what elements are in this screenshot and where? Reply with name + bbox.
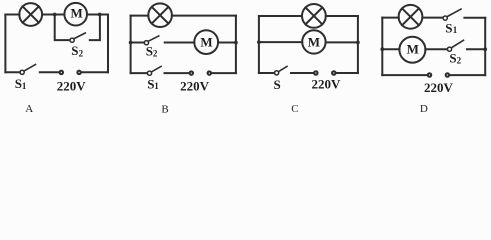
svg-text:M: M xyxy=(70,6,82,21)
svg-text:M: M xyxy=(200,35,212,50)
label S2 (circuit B) xyxy=(146,43,158,58)
label S1 (circuit B) xyxy=(147,77,159,92)
wire D terminal to bottom right corner xyxy=(450,74,485,76)
lamp L (circuit A) xyxy=(19,3,42,26)
wire A motor to node xyxy=(87,14,100,16)
wire C motor to right vertical xyxy=(326,41,358,43)
svg-text:2: 2 xyxy=(79,49,84,59)
terminal T1 of 220V source (circuit C) xyxy=(314,71,317,74)
wire A bottom left segment xyxy=(5,71,19,73)
wire C right vertical xyxy=(357,16,359,73)
svg-text:220V: 220V xyxy=(424,80,454,95)
svg-text:M: M xyxy=(407,41,419,56)
node A1 (junction left of motor) xyxy=(53,13,57,17)
wire C top segment left xyxy=(259,15,302,17)
switch S2 (circuit A) xyxy=(70,33,85,42)
lamp L (circuit D) xyxy=(399,5,423,29)
wire C bottom left segment xyxy=(259,72,274,74)
terminal T2 of 220V source (circuit A) xyxy=(77,71,80,74)
wire B top left segment xyxy=(131,15,149,17)
wire C lamp to top right corner xyxy=(326,15,358,17)
node D1 (junction middle left) xyxy=(380,47,384,51)
switch S1 (circuit D) xyxy=(443,9,461,20)
terminal T1 of 220V source (circuit D) xyxy=(428,73,431,76)
svg-text:220V: 220V xyxy=(57,79,87,94)
switch S (circuit C) xyxy=(275,66,288,75)
motor M (circuit D) xyxy=(399,37,425,63)
wire B switch to terminal xyxy=(165,72,189,74)
wire D switch to right vertical xyxy=(467,48,485,50)
svg-text:C: C xyxy=(291,103,298,115)
motor M (circuit B) xyxy=(194,30,218,54)
svg-text:B: B xyxy=(161,104,168,116)
wire A switch to terminal xyxy=(40,71,59,73)
label S2 (circuit D) xyxy=(449,50,461,65)
wire C switch to terminal xyxy=(291,72,313,74)
wire D left vertical xyxy=(381,18,383,76)
node B1 (junction middle left) xyxy=(129,41,133,45)
node C1 (junction middle left) xyxy=(257,40,261,44)
wire D switch to top right corner xyxy=(464,17,485,19)
label S1 (circuit D) xyxy=(445,20,458,35)
wire B left vertical xyxy=(130,16,132,74)
wire D lamp to switch xyxy=(422,17,443,19)
wire B bottom left segment xyxy=(131,72,148,74)
svg-text:220V: 220V xyxy=(180,78,210,93)
wire A S2 to right branch xyxy=(90,15,100,41)
wire C left vertical xyxy=(258,16,260,73)
svg-text:S: S xyxy=(146,43,153,58)
wire A node to top right corner xyxy=(100,14,108,16)
wire A left vertical xyxy=(4,15,6,73)
svg-text:1: 1 xyxy=(22,81,27,91)
motor M (circuit C) xyxy=(302,30,325,53)
svg-text:S: S xyxy=(449,50,456,65)
svg-text:D: D xyxy=(420,103,428,115)
wire C terminal to bottom right corner xyxy=(336,72,358,74)
wire B motor to right vertical xyxy=(218,42,236,44)
label S2 (circuit A) xyxy=(71,43,83,59)
svg-text:2: 2 xyxy=(457,56,462,66)
wire D motor to switch xyxy=(425,48,447,50)
wire C middle left segment xyxy=(259,41,302,43)
wire D right vertical xyxy=(484,18,486,75)
wire A node to motor xyxy=(55,14,65,16)
wire A top left segment xyxy=(5,14,19,16)
svg-text:1: 1 xyxy=(154,81,159,91)
svg-text:1: 1 xyxy=(453,25,458,35)
wire A lamp to node xyxy=(42,14,55,16)
terminal T2 of 220V source (circuit D) xyxy=(446,73,449,76)
wire D top left segment xyxy=(382,17,398,19)
node D2 (junction middle right) xyxy=(483,47,487,51)
node B2 (junction middle right) xyxy=(234,41,238,45)
wire D bottom left segment xyxy=(382,74,427,76)
wire B S2 to motor xyxy=(165,42,195,44)
switch S2 (circuit B) xyxy=(144,36,159,45)
wire A S2-branch left vertical xyxy=(55,15,70,41)
wire B right vertical xyxy=(235,16,237,74)
lamp L (circuit C) xyxy=(302,4,326,28)
terminal T2 of 220V source (circuit B) xyxy=(208,71,211,74)
wire B lamp to top right corner xyxy=(172,15,236,17)
svg-text:220V: 220V xyxy=(312,77,342,92)
node C2 (junction middle right) xyxy=(356,41,360,45)
motor M (circuit A) xyxy=(64,3,87,26)
label S1 (circuit A) xyxy=(15,76,27,91)
svg-text:S: S xyxy=(445,20,452,35)
switch S1 (circuit B) xyxy=(147,67,161,76)
svg-text:S: S xyxy=(274,77,281,92)
svg-text:M: M xyxy=(308,34,320,49)
switch S2 (circuit D) xyxy=(447,40,463,51)
svg-text:S: S xyxy=(71,43,78,58)
switch S1 (circuit A) xyxy=(20,65,36,75)
node A2 (junction right of motor) xyxy=(98,13,102,17)
wire D middle left segment xyxy=(382,48,399,50)
svg-text:2: 2 xyxy=(153,49,158,59)
wire B terminal to bottom right corner xyxy=(212,72,236,74)
terminal T1 of 220V source (circuit B) xyxy=(190,71,193,74)
svg-text:A: A xyxy=(25,103,33,115)
terminal T1 of 220V source (circuit A) xyxy=(60,71,63,74)
wire A terminal to bottom right corner xyxy=(82,71,109,73)
terminal T2 of 220V source (circuit C) xyxy=(332,71,335,74)
wire A right vertical xyxy=(107,15,109,73)
lamp L (circuit B) xyxy=(148,3,172,27)
wire B middle left segment xyxy=(131,42,145,44)
